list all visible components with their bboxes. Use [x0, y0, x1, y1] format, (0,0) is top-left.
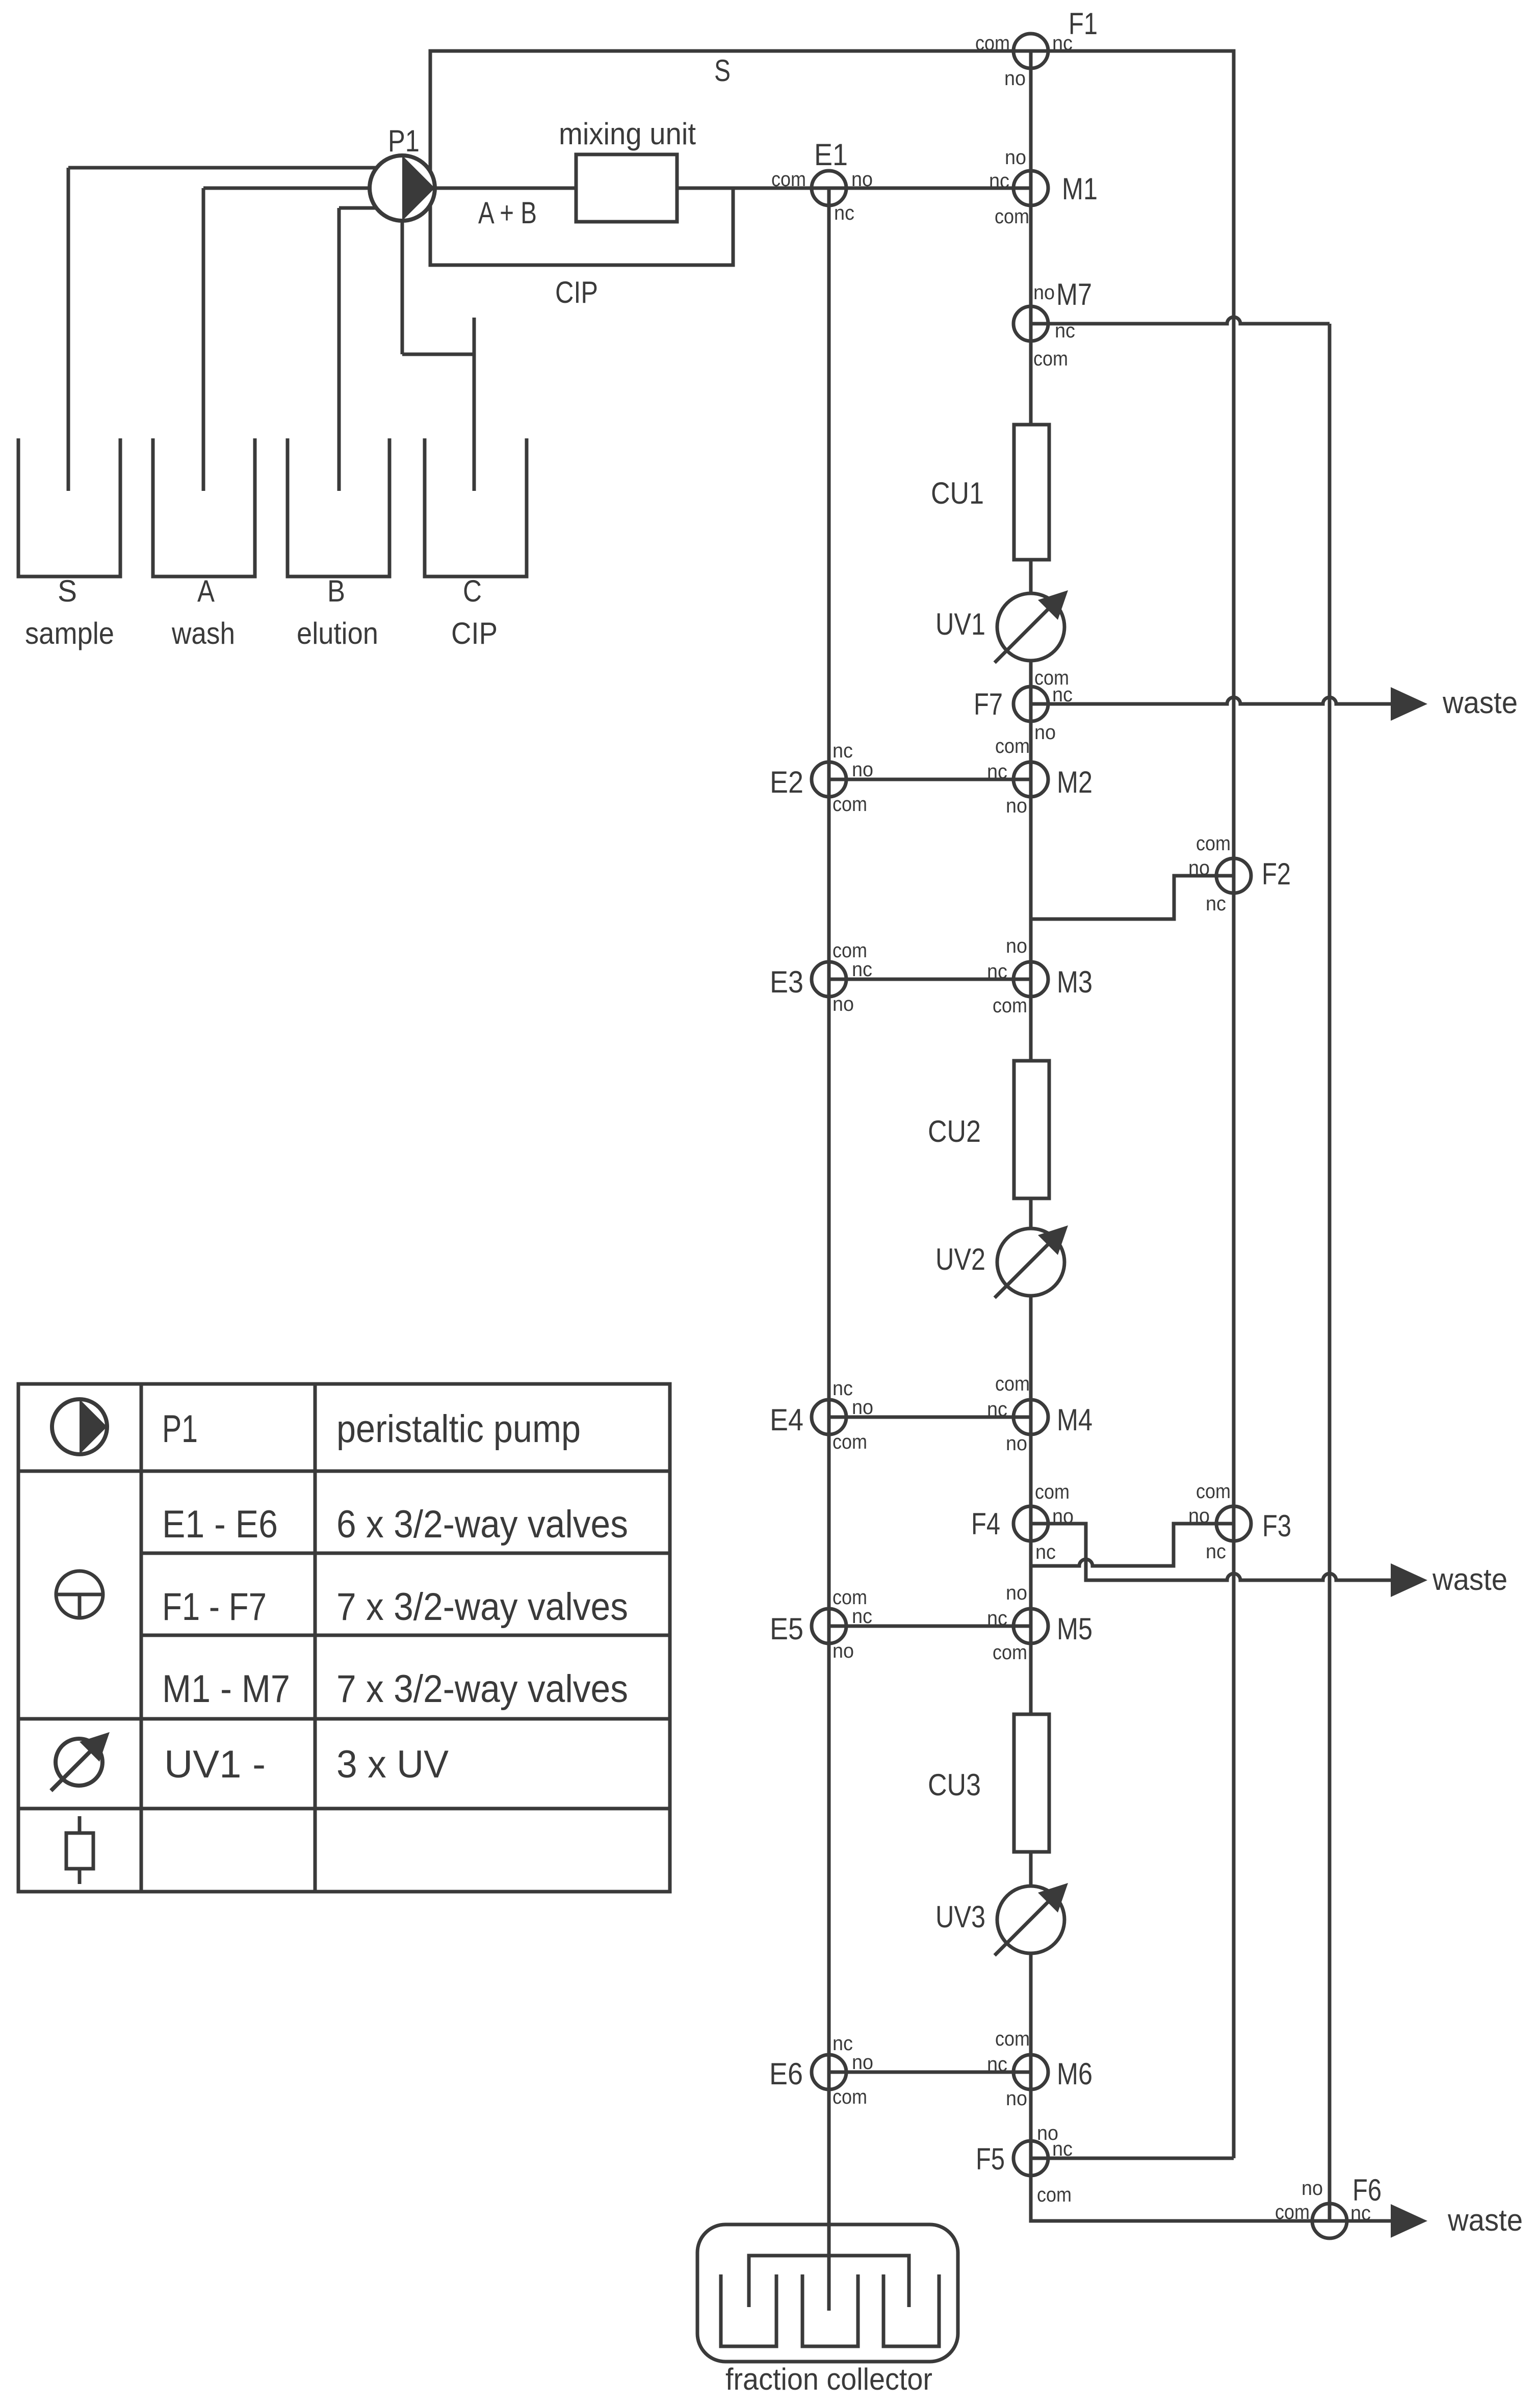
wire jog to CIP dip tube — [402, 353, 474, 356]
svg-text:no: no — [852, 2051, 873, 2074]
pump P1 rotor triangle — [402, 155, 435, 221]
svg-text:no: no — [1006, 795, 1027, 817]
legend valve symbol stub — [78, 1594, 82, 1618]
svg-text:com: com — [1035, 1481, 1070, 1503]
column CU1 — [1014, 425, 1049, 560]
svg-text:nc: nc — [1052, 2138, 1073, 2160]
svg-text:no: no — [1006, 1432, 1027, 1455]
svg-text:nc: nc — [1055, 320, 1075, 342]
svg-text:CU3: CU3 — [928, 1768, 981, 1802]
svg-text:nc: nc — [832, 1377, 853, 1400]
UV detector UV2 arrowhead — [1038, 1225, 1068, 1255]
valve F7 — [1013, 687, 1048, 721]
svg-text:peristaltic pump: peristaltic pump — [336, 1407, 581, 1451]
wire F4 nc tap to F3 no with hop — [1031, 1524, 1234, 1566]
valve M1 — [1013, 171, 1048, 205]
wire sample S to pump — [68, 166, 402, 170]
beaker S sample — [18, 438, 120, 577]
valve F5 — [1013, 2141, 1048, 2176]
svg-text:com: com — [993, 994, 1027, 1017]
svg-text:E1 - E6: E1 - E6 — [162, 1503, 278, 1546]
svg-text:A: A — [197, 574, 215, 608]
UV detector UV1 circle — [997, 593, 1064, 661]
svg-text:nc: nc — [987, 960, 1007, 983]
wire M7 nc to right drop with hop — [1031, 317, 1330, 324]
svg-text:nc: nc — [1206, 893, 1226, 915]
wire E3 to M3 — [829, 978, 1031, 981]
legend column symbol box — [66, 1833, 93, 1869]
svg-text:M2: M2 — [1057, 765, 1092, 799]
wire E column E1 to fraction collector — [827, 188, 831, 2311]
svg-text:M4: M4 — [1057, 1403, 1092, 1437]
wire F5 nc to right drop — [1031, 2157, 1234, 2160]
fraction collector cup 1 — [721, 2274, 776, 2346]
valve E5 — [812, 1609, 846, 1643]
svg-text:E3: E3 — [770, 965, 803, 999]
valve M5 — [1013, 1609, 1048, 1643]
wire wash A to pump — [203, 187, 402, 190]
svg-text:CU1: CU1 — [931, 476, 984, 510]
svg-text:B: B — [327, 574, 345, 608]
svg-text:nc: nc — [1035, 1541, 1056, 1563]
svg-text:E4: E4 — [770, 1403, 803, 1437]
svg-text:no: no — [852, 1396, 873, 1419]
UV detector UV2 circle — [997, 1228, 1064, 1296]
svg-text:UV3: UV3 — [935, 1900, 985, 1934]
svg-text:6 x 3/2-way valves: 6 x 3/2-way valves — [336, 1503, 628, 1546]
svg-text:M5: M5 — [1057, 1612, 1092, 1646]
wire CIP dip tube — [473, 318, 476, 491]
svg-text:nc: nc — [834, 202, 854, 224]
svg-text:nc: nc — [989, 170, 1009, 192]
wire wash dip tube — [202, 188, 205, 491]
svg-text:E5: E5 — [770, 1612, 803, 1646]
svg-text:E6: E6 — [769, 2057, 803, 2091]
wire M column tap to F2 no — [1031, 876, 1234, 919]
legend UV symbol circle — [56, 1739, 102, 1786]
svg-text:com: com — [832, 1431, 867, 1453]
svg-text:com: com — [995, 205, 1029, 228]
wire M column F1 down to bottom waste — [1031, 51, 1391, 2221]
svg-text:M7: M7 — [1056, 277, 1092, 311]
valve M2 — [1013, 762, 1048, 797]
svg-text:no: no — [1034, 721, 1056, 744]
svg-text:nc: nc — [832, 2032, 853, 2055]
svg-text:F1: F1 — [1069, 7, 1098, 41]
svg-text:com: com — [1033, 348, 1068, 370]
wire F4 no to middle waste with hops — [1031, 1524, 1391, 1580]
valve F4 — [1013, 1506, 1048, 1541]
waste arrow middle — [1391, 1563, 1427, 1597]
valve F1 — [1013, 34, 1048, 68]
column CU2 — [1014, 1061, 1049, 1198]
svg-text:no: no — [852, 758, 873, 781]
svg-text:S: S — [714, 54, 731, 88]
legend UV symbol arrowhead — [80, 1732, 110, 1762]
svg-text:nc: nc — [987, 1607, 1007, 1630]
svg-text:CU2: CU2 — [928, 1114, 981, 1148]
svg-text:nc: nc — [987, 1398, 1007, 1421]
waste arrow bottom — [1391, 2204, 1427, 2238]
wire S-line top, right drop to F5, CIP loop — [430, 51, 1234, 2158]
UV detector UV2 needle — [995, 1235, 1057, 1298]
svg-text:P1: P1 — [388, 124, 420, 158]
svg-text:com: com — [975, 32, 1010, 55]
valve E3 — [812, 962, 846, 997]
svg-text:no: no — [851, 168, 873, 191]
svg-text:UV1: UV1 — [935, 607, 985, 641]
svg-text:fraction collector: fraction collector — [725, 2362, 932, 2396]
svg-text:com: com — [1275, 2201, 1310, 2223]
valve M4 — [1013, 1400, 1048, 1434]
svg-text:A + B: A + B — [478, 196, 537, 230]
wire A+B pump to E1 to M1 — [435, 187, 1031, 190]
svg-text:E2: E2 — [770, 765, 803, 799]
svg-text:sample: sample — [25, 616, 114, 650]
svg-text:nc: nc — [987, 761, 1007, 783]
svg-text:com: com — [832, 2086, 867, 2108]
wire elution B to pump — [339, 206, 402, 210]
legend valve symbol — [56, 1571, 103, 1618]
svg-text:M3: M3 — [1057, 965, 1092, 999]
svg-text:no: no — [1006, 935, 1027, 957]
svg-text:no: no — [832, 993, 854, 1015]
svg-text:com: com — [993, 1641, 1027, 1664]
legend table frame — [18, 1384, 670, 1892]
svg-text:nc: nc — [852, 958, 872, 981]
beaker C CIP — [425, 438, 527, 577]
svg-text:nc: nc — [1350, 2202, 1371, 2224]
svg-text:nc: nc — [832, 740, 853, 762]
fraction collector transfer tube — [749, 2256, 909, 2307]
beaker A wash — [153, 438, 255, 577]
column CU3 — [1014, 1714, 1049, 1852]
fraction collector cup 3 — [883, 2274, 939, 2346]
UV detector UV1 arrowhead — [1038, 590, 1068, 620]
wire E2 to M2 — [829, 778, 1031, 781]
svg-text:no: no — [1188, 1505, 1210, 1527]
svg-text:com: com — [1196, 832, 1231, 855]
valve E2 — [812, 762, 846, 797]
fraction collector cup 2 — [802, 2274, 858, 2346]
svg-text:CIP: CIP — [451, 616, 498, 650]
svg-text:F2: F2 — [1262, 857, 1291, 891]
svg-text:F7: F7 — [974, 687, 1003, 721]
pump P1 circle — [370, 155, 435, 221]
UV detector UV3 needle — [995, 1893, 1057, 1955]
svg-text:wash: wash — [171, 616, 235, 650]
svg-text:elution: elution — [297, 616, 378, 650]
svg-text:no: no — [1052, 1505, 1074, 1528]
wire elution dip tube — [337, 208, 341, 491]
svg-text:com: com — [832, 793, 867, 816]
wire pump down to CIP beaker — [401, 188, 404, 354]
svg-text:UV2: UV2 — [935, 1242, 985, 1276]
legend valve symbol horizontal — [56, 1593, 103, 1596]
svg-text:no: no — [832, 1640, 854, 1662]
beaker B elution — [288, 438, 389, 577]
wire right drop M7 to F6 — [1328, 324, 1332, 2221]
svg-text:no: no — [1005, 146, 1026, 169]
svg-text:no: no — [1188, 857, 1210, 879]
svg-text:S: S — [58, 574, 77, 608]
svg-text:7 x 3/2-way valves: 7 x 3/2-way valves — [336, 1667, 628, 1711]
svg-text:no: no — [1033, 281, 1055, 304]
svg-text:P1: P1 — [162, 1407, 198, 1451]
svg-text:nc: nc — [987, 2053, 1007, 2076]
svg-text:com: com — [995, 1373, 1030, 1395]
svg-text:no: no — [1302, 2177, 1323, 2200]
valve M6 — [1013, 2055, 1048, 2089]
mixing unit box — [576, 154, 677, 222]
UV detector UV3 circle — [997, 1886, 1064, 1953]
svg-text:waste: waste — [1442, 686, 1518, 720]
legend UV symbol needle — [51, 1742, 99, 1791]
svg-text:nc: nc — [852, 1605, 872, 1628]
svg-text:com: com — [1037, 2184, 1072, 2206]
legend column symbol top lead — [78, 1816, 82, 1833]
svg-text:waste: waste — [1447, 2203, 1523, 2237]
wire E6 to M6 — [829, 2071, 1031, 2074]
svg-text:com: com — [995, 735, 1030, 757]
svg-text:nc: nc — [1052, 684, 1073, 706]
svg-text:nc: nc — [1052, 32, 1073, 55]
svg-text:F3: F3 — [1262, 1509, 1291, 1543]
valve E6 — [812, 2055, 846, 2089]
svg-text:3 x UV: 3 x UV — [336, 1743, 449, 1786]
fraction collector body — [697, 2224, 958, 2362]
legend pump triangle — [80, 1399, 107, 1454]
svg-text:C: C — [463, 574, 482, 608]
wire F7 nc waste line with hops — [1031, 697, 1391, 704]
valve F3 — [1216, 1506, 1251, 1541]
svg-text:7 x 3/2-way valves: 7 x 3/2-way valves — [336, 1585, 628, 1629]
svg-text:F1 - F7: F1 - F7 — [162, 1585, 267, 1629]
waste arrow top — [1391, 687, 1427, 721]
svg-text:M1 - M7: M1 - M7 — [162, 1667, 290, 1711]
svg-text:no: no — [1006, 2087, 1027, 2110]
svg-text:no: no — [1004, 67, 1026, 90]
legend column symbol bottom lead — [78, 1869, 82, 1884]
legend pump symbol — [52, 1399, 107, 1454]
wire sample dip tube — [67, 168, 70, 491]
UV detector UV3 arrowhead — [1038, 1883, 1068, 1913]
svg-text:nc: nc — [1206, 1540, 1226, 1563]
valve F2 — [1216, 858, 1251, 893]
svg-text:F4: F4 — [971, 1507, 1000, 1541]
svg-text:com: com — [1196, 1480, 1231, 1503]
svg-text:M6: M6 — [1057, 2057, 1092, 2091]
svg-text:E1: E1 — [814, 138, 848, 172]
valve M7 — [1013, 306, 1048, 341]
svg-text:no: no — [1006, 1582, 1027, 1604]
valve F6 — [1312, 2204, 1347, 2238]
wire E4 to M4 — [829, 1416, 1031, 1419]
svg-text:M1: M1 — [1062, 172, 1098, 206]
UV detector UV1 needle — [995, 600, 1057, 663]
svg-text:F5: F5 — [976, 2142, 1005, 2176]
svg-text:CIP: CIP — [555, 275, 598, 309]
svg-text:waste: waste — [1432, 1562, 1507, 1596]
svg-text:com: com — [995, 2028, 1030, 2050]
svg-text:UV1 -: UV1 - — [164, 1743, 266, 1786]
valve M3 — [1013, 962, 1048, 997]
svg-text:com: com — [771, 168, 806, 191]
wire E5 to M5 — [829, 1625, 1031, 1628]
valve E1 — [812, 171, 846, 205]
valve E4 — [812, 1400, 846, 1434]
svg-text:mixing unit: mixing unit — [559, 117, 696, 151]
